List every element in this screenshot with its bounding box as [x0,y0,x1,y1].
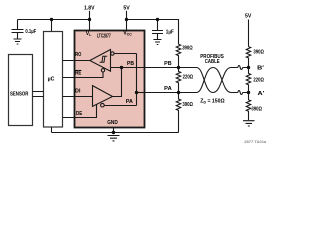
svg-text:RE: RE [75,71,82,77]
wire PA pin exit [137,92,144,94]
wire uC ground riser [51,127,53,133]
twisted pair cable [189,68,238,93]
svg-text:CABLE: CABLE [205,59,220,65]
wire PA riser [136,54,138,106]
cable break curl A [238,91,249,95]
node dot 1.8V tee [88,18,91,21]
svg-text:RO: RO [75,52,81,58]
resistor R2 220ohm left [176,68,180,93]
wire sensor-uC bus [33,92,44,97]
node dot PB term [177,66,180,69]
svg-text:SENSOR: SENSOR [10,92,29,98]
wire PB external [144,67,190,69]
wire DE [63,104,97,117]
driver triangle [93,86,113,107]
wire PA external [144,92,190,94]
node dot cap tap [156,18,159,21]
svg-text:390Ω: 390Ω [251,107,262,113]
node B' [247,66,250,69]
svg-text:5V: 5V [123,6,130,12]
driver inverting output bubble [101,103,105,107]
wire GND riser [113,128,115,133]
node dot uC supply [50,18,53,21]
resistor R5 220ohm right [246,68,250,93]
svg-text:PA: PA [126,99,133,105]
wire 5V right riser [248,20,250,47]
svg-text:0.1µF: 0.1µF [25,29,36,35]
node dot gnd bus [112,131,115,134]
wire driver bubble to PA riser [104,105,136,107]
wire receiver bubble to PA riser [114,53,136,55]
wire ground bus [52,132,179,134]
node dot PB internal [120,66,123,69]
svg-text:1.8V: 1.8V [84,6,95,12]
wire PB internal [111,67,144,69]
sensor box [9,55,33,126]
svg-text:LTC2877: LTC2877 [97,34,111,40]
wire uC top riser [51,20,53,32]
svg-text:B′: B′ [257,65,265,71]
svg-text:220Ω: 220Ω [253,77,264,83]
ground chip [108,136,120,141]
node A' [247,91,250,94]
svg-text:VCC: VCC [123,31,132,37]
capacitor C2 1uF [152,20,163,40]
receiver input bubble (PA side) [111,52,114,55]
node dot PA term [177,91,180,94]
svg-text:µC: µC [48,77,55,83]
op-amp U1 chip body LTC2877 [75,31,145,128]
svg-text:A′: A′ [258,91,266,97]
wire DI [63,96,93,98]
svg-text:GND: GND [107,120,118,126]
svg-text:220Ω: 220Ω [183,74,194,80]
resistor R3 390ohm bottom left [176,93,180,133]
svg-text:390Ω: 390Ω [182,46,193,52]
svg-text:DI: DI [75,88,81,94]
svg-text:390Ω: 390Ω [182,102,193,108]
hysteresis symbol [100,56,108,62]
resistor R6 390ohm right bottom [246,93,250,121]
receiver triangle [90,50,111,72]
svg-text:2877 TA01a: 2877 TA01a [244,140,266,144]
svg-text:DE: DE [76,111,83,117]
ground under C2 [153,40,161,45]
ground under C1 [14,39,22,44]
cable break curl B [238,66,249,70]
resistor R1 390ohm top left [176,44,180,67]
wire RO [63,60,90,62]
svg-text:PB: PB [127,61,134,67]
wire RE [63,72,104,78]
capacitor C1 0.1uF [12,20,24,39]
resistor R4 390ohm right top [246,47,250,68]
node dot PA internal [135,91,138,94]
svg-text:ZD = 150Ω: ZD = 150Ω [200,99,224,105]
svg-text:VL: VL [86,31,92,37]
svg-text:PB: PB [164,61,172,67]
svg-text:1µF: 1µF [166,29,174,35]
svg-text:5V: 5V [245,14,252,20]
uC box [44,32,63,128]
svg-text:PA: PA [164,86,172,92]
wire 1.8V rail [18,11,90,31]
node dot 5V tee [125,18,128,21]
receiver enable bubble [101,69,104,72]
ground right column [243,121,255,126]
wire 5V left rail [127,11,179,44]
svg-text:390Ω: 390Ω [253,49,264,55]
wire driver apex to PB [113,68,122,97]
